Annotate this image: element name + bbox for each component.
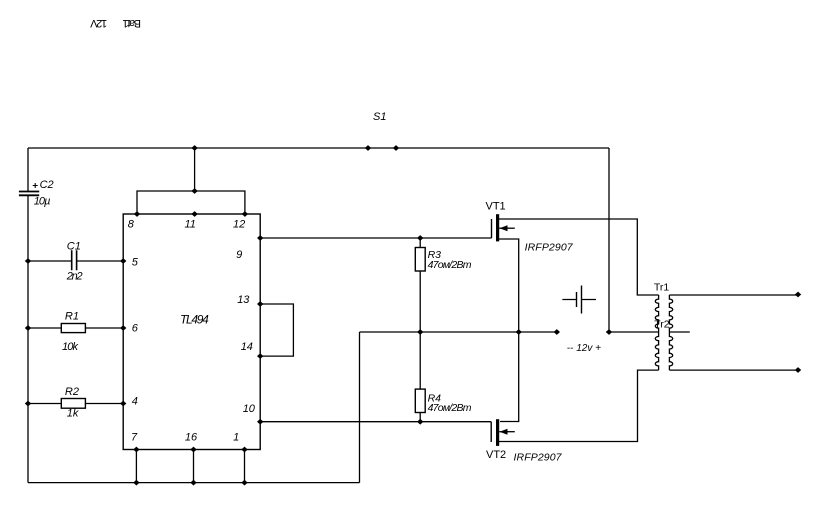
svg-text:TL494: TL494 <box>180 313 209 327</box>
svg-text:12: 12 <box>233 219 245 231</box>
wire IC supply drop <box>194 148 196 191</box>
battery GB1 short plate <box>576 292 578 307</box>
wire supply bracket pins 8-11-12 <box>137 191 245 214</box>
svg-text:4: 4 <box>132 395 138 407</box>
svg-text:10µ: 10µ <box>34 196 51 208</box>
resistor R4 body <box>415 389 425 412</box>
transformer Tr1 primary winding <box>655 295 658 370</box>
capacitor C2 plates <box>19 192 39 196</box>
svg-text:IRFP2907: IRFP2907 <box>514 452 563 464</box>
svg-text:8: 8 <box>128 219 135 231</box>
svg-text:IRFP2907: IRFP2907 <box>525 241 574 253</box>
junction R3 top <box>417 235 423 241</box>
svg-text:14: 14 <box>241 341 253 353</box>
wire pin 10 to VT2 gate <box>260 421 491 423</box>
svg-text:13: 13 <box>237 294 250 306</box>
IC U1 TL494 body <box>123 214 260 450</box>
svg-text:10: 10 <box>243 403 256 415</box>
svg-text:S1: S1 <box>373 111 386 123</box>
svg-text:VT2: VT2 <box>486 449 506 461</box>
svg-text:C1: C1 <box>67 241 81 253</box>
junction R4 bottom <box>417 419 423 425</box>
node output top <box>795 292 801 298</box>
resistor R2 body <box>61 399 85 409</box>
wire middle rail (battery minus) <box>360 331 557 333</box>
svg-text:1: 1 <box>233 431 239 443</box>
node battery minus <box>554 329 560 335</box>
junction pin 14 <box>257 353 263 359</box>
battery label Bat1 12V (rotated 180deg) <box>90 17 141 29</box>
wire R4 bottom lead <box>419 413 421 422</box>
wire pin 7 drop <box>135 450 137 483</box>
resistor R1 body <box>61 324 85 333</box>
svg-text:Tr1: Tr1 <box>654 282 670 294</box>
svg-text:10k: 10k <box>62 341 79 353</box>
transistor VT1 substrate arrow <box>499 227 515 229</box>
svg-text:9: 9 <box>236 249 242 261</box>
switch S1 contact A <box>365 145 371 151</box>
wire VT1 drain to transformer top <box>499 219 659 295</box>
transformer Tr1 secondary winding <box>669 295 672 370</box>
junction left rail / pin5 wire <box>25 258 31 264</box>
battery GB1 long plate <box>581 286 583 314</box>
junction bus pin 7 <box>133 480 139 486</box>
wire secondary bottom lead <box>669 369 798 371</box>
junction bracket top <box>191 188 197 194</box>
capacitor C1 plates <box>72 250 77 270</box>
junction pin 13 <box>257 301 263 307</box>
svg-text:C2: C2 <box>40 179 54 191</box>
resistor R3 body <box>415 248 425 272</box>
junction pin 5 <box>120 258 126 264</box>
wire battery plus to transformer center tap <box>609 331 659 333</box>
wire secondary center stub <box>669 331 689 333</box>
transistor VT2 gate line <box>490 422 492 442</box>
node output bottom <box>795 367 801 373</box>
transistor VT1 gate line <box>491 219 493 238</box>
svg-text:Tr2: Tr2 <box>654 318 670 330</box>
junction top rail / IC supply <box>191 145 197 151</box>
junction pin 8 <box>134 211 140 217</box>
wire VT2 source to transformer bottom <box>499 370 659 441</box>
switch S1 contact B <box>393 145 399 151</box>
junction pin 7 <box>133 447 139 453</box>
junction pin 12 <box>242 211 248 217</box>
wire pins 13-14 bracket <box>260 304 293 356</box>
transistor VT1 channel bar <box>496 214 499 241</box>
svg-text:6: 6 <box>132 323 139 335</box>
wire VT2 drain to middle rail <box>500 332 519 422</box>
capacitor C2 polarity plus <box>33 183 38 188</box>
svg-text:47ом/2Вт: 47ом/2Вт <box>428 259 472 271</box>
junction pin 1 <box>241 447 247 453</box>
wire ground riser <box>359 332 361 483</box>
svg-text:R2: R2 <box>65 386 79 398</box>
wire pin 9 to VT1 gate <box>260 237 491 239</box>
junction pin 9 <box>257 235 263 241</box>
wire VT1 source to middle rail <box>499 239 519 332</box>
svg-text:7: 7 <box>131 431 138 443</box>
junction bus pin 16 <box>190 480 196 486</box>
transistor VT2 channel bar <box>496 419 499 446</box>
battery GB1 leads <box>562 299 596 301</box>
svg-text:1k: 1k <box>67 408 79 420</box>
junction left rail / R2 <box>25 401 31 407</box>
wire top supply rail <box>28 147 609 149</box>
junction left rail / R1 <box>25 325 31 331</box>
node battery plus <box>606 329 612 335</box>
junction pin 4 <box>120 401 126 407</box>
svg-text:11: 11 <box>185 219 196 231</box>
wire R3 top lead <box>419 238 421 248</box>
svg-text:16: 16 <box>185 431 198 443</box>
svg-text:12V: 12V <box>90 17 108 29</box>
wire secondary top lead <box>669 294 798 296</box>
wire R3 bottom lead <box>419 271 421 332</box>
wire pin 6 through R1 <box>28 327 123 329</box>
svg-text:VT1: VT1 <box>486 200 506 212</box>
junction pin 6 <box>120 325 126 331</box>
wire pin 5 to C1 <box>28 260 123 262</box>
svg-text:5: 5 <box>132 257 139 269</box>
svg-text:R1: R1 <box>65 310 79 322</box>
wire pin 1 drop <box>244 450 246 483</box>
svg-text:47ом/2Вт: 47ом/2Вт <box>428 402 472 414</box>
junction R3-R4 middle rail <box>417 329 423 335</box>
junction VT1 source / VT2 drain <box>516 329 522 335</box>
junction pin 10 <box>257 419 263 425</box>
wire pin 16 drop <box>193 450 195 483</box>
wire R4 top lead <box>419 332 421 389</box>
wire left rail <box>27 148 29 483</box>
wire bottom ground bus <box>28 482 360 484</box>
svg-text:-- 12v +: -- 12v + <box>567 343 601 354</box>
junction pin 11 <box>191 211 197 217</box>
junction pin 16 <box>190 447 196 453</box>
transistor VT2 substrate arrow <box>499 431 515 433</box>
svg-text:2n2: 2n2 <box>66 271 83 283</box>
wire pin 4 through R2 <box>28 403 123 405</box>
svg-text:Bat1: Bat1 <box>122 17 141 29</box>
wire battery plus drop <box>608 148 610 332</box>
junction bus pin 1 <box>241 480 247 486</box>
